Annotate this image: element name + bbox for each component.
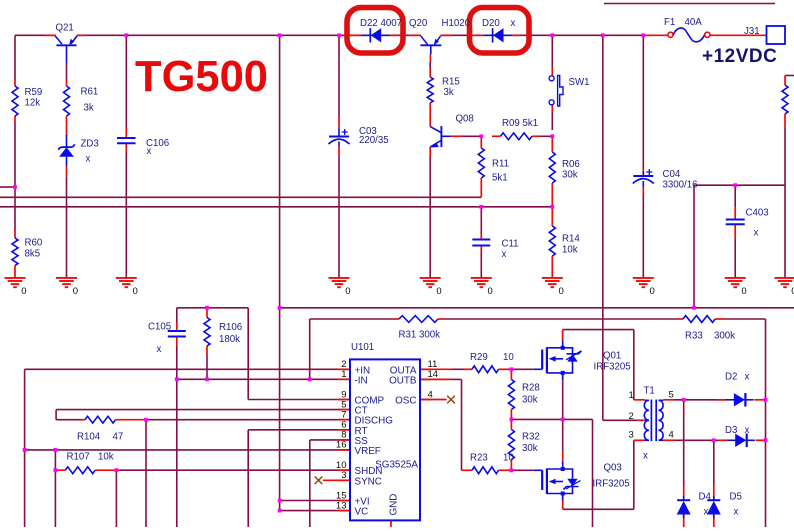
node bus2-C11 junction: [479, 205, 483, 209]
wire pin stub right: [420, 368, 431, 370]
svg-text:2: 2: [629, 411, 634, 422]
wire D22 lead right: [389, 34, 398, 36]
svg-text:R60: R60: [25, 238, 43, 249]
svg-text:x: x: [86, 154, 91, 165]
wire Q01 source lead: [562, 373, 564, 382]
svg-text:0: 0: [650, 286, 655, 297]
wire R106 bottom lead: [206, 346, 208, 356]
wire R28 top lead: [510, 369, 512, 379]
svg-text:C11: C11: [502, 239, 519, 250]
svg-text:IRF3205: IRF3205: [593, 479, 630, 490]
resistor R104: [85, 416, 116, 423]
wire Q03 drain lead: [562, 451, 564, 464]
svg-text:4: 4: [669, 430, 674, 441]
resistor R31: [399, 316, 438, 323]
svg-text:SW1: SW1: [569, 77, 590, 88]
wire Q03 source horizontal: [563, 508, 634, 510]
wire right column lower: [784, 126, 786, 277]
svg-text:GND: GND: [389, 494, 400, 516]
wire R106 top lead: [206, 308, 208, 318]
resistor R61: [64, 86, 70, 116]
connector J3: [767, 26, 786, 44]
wire C105 bottom lead: [176, 337, 178, 347]
node +VI junction: [278, 499, 282, 503]
ground R14: [542, 278, 563, 287]
node C403 feed junction: [733, 183, 737, 187]
ground R60: [5, 278, 26, 287]
wire pin stub right: [420, 378, 431, 380]
wire R23 left lead: [462, 469, 473, 471]
svg-text:47: 47: [113, 432, 124, 443]
wire to Q03 gate: [511, 469, 533, 471]
wire top rail seg1: [15, 34, 56, 36]
svg-text:R29: R29: [470, 352, 488, 363]
svg-text:C403: C403: [746, 208, 769, 219]
wire R104 right lead: [116, 419, 146, 421]
svg-text:D5: D5: [730, 492, 742, 503]
wire COMP riser: [247, 308, 249, 400]
wire feedback line middle: [444, 318, 679, 320]
no-connect X on SYNC pin 3: [315, 477, 323, 485]
ground Q08: [420, 278, 441, 287]
node R107 left junction: [54, 468, 58, 472]
svg-text:x: x: [147, 146, 152, 157]
wire R59 top lead: [14, 80, 16, 86]
diode D2: [726, 393, 754, 407]
svg-text:0: 0: [345, 286, 350, 297]
svg-text:x: x: [643, 451, 648, 462]
wire: [491, 135, 494, 137]
svg-text:F1: F1: [664, 17, 675, 28]
zener diode ZD3: [58, 135, 74, 166]
svg-text:J31: J31: [744, 26, 760, 37]
wire R06 bottom lead: [551, 183, 553, 207]
wire T1 pin4 lead: [663, 439, 674, 441]
wire C403 top lead: [734, 185, 736, 208]
svg-text:OUTB: OUTB: [389, 375, 417, 386]
svg-text:R31 300k: R31 300k: [399, 330, 441, 341]
wire pin stub: [338, 409, 350, 411]
resistor R60: [12, 238, 18, 266]
svg-text:VREF: VREF: [355, 446, 381, 457]
svg-text:H1020: H1020: [442, 18, 471, 29]
capacitor C403: [726, 220, 745, 225]
diode D3: [727, 434, 755, 448]
node -IN R106 junction: [205, 377, 209, 381]
wire C03 bottom lead: [338, 146, 340, 156]
ground C04: [633, 278, 654, 287]
wire R09 left lead: [493, 135, 501, 137]
resistor R32: [508, 430, 514, 460]
wire Q21 collector lead: [45, 34, 56, 36]
svg-text:10k: 10k: [562, 245, 578, 256]
ground C11: [471, 278, 492, 287]
wire VREF branch drop: [54, 450, 56, 527]
svg-text:14: 14: [428, 369, 439, 380]
wire C03 stub2: [338, 142, 340, 147]
wire C106 bottom lead: [125, 143, 127, 152]
wire OUTA segment: [452, 368, 464, 370]
wire C11 to ground: [480, 252, 482, 278]
wire Q08 base segment: [462, 135, 481, 137]
wire T1 pin5 lead: [663, 399, 674, 401]
wire C04 bottom lead: [642, 187, 644, 195]
wire gate-drive drop column: [592, 419, 594, 527]
svg-text:R32: R32: [522, 432, 540, 443]
wire Q03 source lead: [562, 497, 564, 509]
node rail junction: [278, 33, 282, 37]
wire right resistor bottom lead: [784, 114, 786, 126]
wire pin2 +IN: [25, 368, 349, 370]
wire R14 bottom lead: [551, 256, 553, 278]
resistor R106: [204, 318, 210, 347]
wire top rail seg2: [77, 34, 421, 36]
resistor R15: [427, 77, 433, 103]
wire feedback line right: [725, 318, 766, 320]
svg-text:R59: R59: [25, 87, 43, 98]
wire top rail seg3: [440, 34, 643, 36]
wire C105 top lead: [176, 322, 178, 331]
diode D22: [362, 28, 390, 42]
wire Q20 lead right: [440, 34, 452, 36]
svg-text:IRF3205: IRF3205: [594, 362, 631, 373]
wire D3 anode lead: [719, 439, 728, 441]
svg-text:D3: D3: [725, 425, 737, 436]
resistor R06: [549, 152, 555, 183]
wire R15 to Q08 collector: [429, 103, 431, 127]
svg-text:3: 3: [629, 430, 634, 441]
wire R29 right lead: [499, 368, 512, 370]
svg-text:D2: D2: [725, 372, 737, 383]
switch SW1: [549, 76, 563, 107]
wire SS drop: [309, 440, 311, 527]
wire R59 bottom lead: [14, 116, 16, 122]
svg-text:300k: 300k: [714, 331, 735, 342]
no-connect X on OSC pin 4: [447, 396, 455, 404]
svg-text:Q03: Q03: [604, 463, 622, 474]
capacitor C105: [168, 331, 186, 337]
svg-text:R09 5k1: R09 5k1: [502, 118, 538, 129]
wire C106 to ground: [125, 152, 127, 278]
svg-text:R33: R33: [685, 331, 703, 342]
transistor Q01 IRF3205: [534, 341, 582, 380]
svg-text:R23: R23: [470, 453, 488, 464]
wire T1 pin2 horizontal: [603, 419, 637, 421]
wire rail to C03: [338, 35, 340, 116]
wire D2 cathode lead: [754, 399, 765, 401]
svg-text:3k: 3k: [84, 103, 94, 114]
resistor R33: [683, 316, 715, 323]
node -IN feedback junction: [308, 377, 312, 381]
wire Q21 base to R61: [66, 63, 68, 80]
svg-text:x: x: [511, 18, 516, 29]
svg-text:x: x: [704, 507, 709, 518]
wire C03 to ground: [338, 156, 340, 277]
svg-text:5: 5: [669, 390, 674, 401]
wire D5 bottom lead: [713, 515, 715, 528]
svg-text:x: x: [745, 372, 750, 383]
svg-text:x: x: [502, 249, 507, 260]
wire pin5 CT: [56, 409, 349, 411]
diode D20: [484, 28, 512, 42]
svg-text:0: 0: [73, 286, 78, 297]
resistor right edge: [782, 85, 788, 114]
node R59-R60 junction: [13, 185, 17, 189]
node R104-DISCHG junction: [144, 418, 148, 422]
wire C106 top lead: [125, 127, 127, 138]
wire node A horizontal: [280, 307, 794, 309]
diode D4: [677, 496, 690, 518]
wire C03 stub: [338, 128, 340, 137]
wire pin3 SYNC stub: [323, 479, 349, 481]
svg-text:13: 13: [336, 500, 347, 511]
svg-text:0: 0: [741, 286, 746, 297]
svg-text:10: 10: [503, 453, 514, 464]
wire C105 top: [176, 308, 178, 322]
svg-text:R15: R15: [442, 77, 460, 88]
wire R09 right lead: [532, 135, 540, 137]
node T1 pin5-D4 junction: [682, 398, 686, 402]
wire Q01 drain lead: [562, 330, 564, 341]
svg-text:30k: 30k: [522, 395, 538, 406]
wire rail to C106: [125, 35, 127, 127]
wire D4 top lead: [683, 486, 685, 499]
wire to Q01 gate: [511, 368, 533, 370]
wire T1 pin1 riser: [633, 330, 635, 400]
wire OUTB corner segment: [451, 378, 462, 380]
node R23-R32-gate junction: [510, 468, 514, 472]
resistor R107: [65, 467, 95, 474]
svg-text:3: 3: [341, 470, 346, 481]
wire C04 stub: [642, 171, 644, 176]
capacitor C106: [117, 138, 136, 143]
svg-text:R104: R104: [77, 432, 101, 443]
node T1 pin4-D5 junction: [712, 438, 716, 442]
wire rail to pin13 column: [279, 35, 281, 510]
wire left column middle: [14, 122, 16, 230]
node R09-R06-SW1 junction: [550, 134, 554, 138]
transistor Q08: [430, 126, 450, 147]
svg-text:R107: R107: [67, 452, 90, 463]
wire right output column: [765, 319, 767, 527]
wire C403 bottom lead: [734, 224, 736, 238]
wire R11 top lead: [480, 136, 482, 148]
svg-text:10: 10: [503, 352, 514, 363]
wire D5 top lead: [713, 486, 715, 499]
wire D4 bottom lead: [683, 515, 685, 528]
svg-text:8k5: 8k5: [25, 249, 41, 260]
wire feedback riser to -IN: [309, 319, 311, 379]
wire pin15 +VI: [280, 500, 349, 502]
wire +IN drop column: [24, 369, 26, 527]
wire C403 feed horizontal: [694, 184, 785, 186]
wire pin stub: [338, 439, 350, 441]
svg-text:SYNC: SYNC: [355, 476, 382, 487]
wire R60 bottom lead: [14, 266, 16, 278]
wire pin stub: [338, 429, 350, 431]
transistor Q21: [55, 36, 77, 63]
wire C04 top lead: [642, 168, 644, 176]
wire C105 bottom column: [176, 346, 178, 527]
wire R15 top lead: [429, 69, 431, 78]
wire left column upper: [14, 35, 16, 80]
node rail-C04-F1 junction: [641, 33, 645, 37]
svg-text:SG3525A: SG3525A: [375, 460, 418, 471]
svg-text:D22 4007: D22 4007: [360, 18, 402, 29]
node bus2-R14 junction: [550, 205, 554, 209]
wire R23 right lead: [499, 469, 512, 471]
node Q01 source junction: [561, 418, 565, 422]
wire R28 bottom lead: [510, 410, 512, 420]
ground C106: [116, 278, 137, 287]
transistor Q20: [420, 36, 441, 54]
transistor Q03 IRF3205: [534, 462, 581, 501]
svg-text:ZD3: ZD3: [81, 139, 99, 150]
svg-text:1: 1: [341, 369, 346, 380]
resistor R29: [472, 366, 499, 373]
wire bus2 to C11: [480, 207, 482, 234]
svg-text:30k: 30k: [562, 170, 578, 181]
svg-text:T1: T1: [644, 386, 655, 397]
wire T1 pin3 lead: [634, 439, 645, 441]
wire R61 top lead: [66, 80, 68, 86]
svg-text:x: x: [745, 425, 750, 436]
wire pin stub: [338, 399, 350, 401]
wire T1 pin5 to D2: [675, 399, 725, 401]
resistor R59: [12, 86, 18, 116]
svg-text:Q21: Q21: [56, 23, 74, 34]
wire pin stub: [338, 479, 350, 481]
wire C03 top lead: [338, 117, 340, 128]
node -IN C105 junction: [175, 377, 179, 381]
node D2 output junction: [764, 398, 768, 402]
wire pin16 VREF: [25, 449, 349, 451]
wire rail to C04: [642, 35, 644, 168]
wire R33 left lead: [678, 318, 683, 320]
wire pin stub right: [420, 399, 431, 401]
wire C403 top lead: [734, 208, 736, 220]
svg-text:5k1: 5k1: [492, 173, 508, 184]
wire R32 bottom lead: [510, 460, 512, 471]
wire pin9 COMP: [248, 399, 349, 401]
red highlight box around D22: [347, 8, 403, 54]
svg-text:0: 0: [436, 286, 441, 297]
wire OUTA lead: [421, 368, 452, 370]
node rail center-tap junction: [601, 33, 605, 37]
svg-text:0: 0: [559, 286, 564, 297]
wire top-right horizontal: [604, 3, 775, 5]
wire R28 node to Q01 source: [511, 418, 592, 420]
wire C403 feed vertical: [693, 185, 695, 308]
svg-text:16: 16: [336, 440, 347, 451]
wire pin stub: [338, 419, 350, 421]
svg-text:Q20: Q20: [409, 18, 428, 29]
wire R33 right lead: [715, 318, 724, 320]
wire C04 to ground: [642, 195, 644, 278]
svg-text:VC: VC: [355, 507, 369, 518]
node VREF left junction: [23, 448, 27, 452]
wire rail to T1 pin2: [602, 35, 604, 420]
wire T1 pin1 lead: [634, 399, 645, 401]
node rail-SW1 junction: [550, 33, 554, 37]
wire R06 top lead: [551, 136, 553, 152]
wire pin7 DISCHG: [146, 419, 349, 421]
wire D4 column: [683, 400, 685, 486]
node lineA junction: [278, 306, 282, 310]
wire left stub to R60 node: [0, 186, 15, 188]
wire R107 right lead: [95, 469, 120, 471]
wire R09 to SW1 node: [540, 135, 552, 137]
wire OSC lead: [421, 399, 447, 401]
svg-text:30k: 30k: [522, 443, 538, 454]
svg-text:x: x: [754, 228, 759, 239]
svg-text:10k: 10k: [98, 452, 114, 463]
wire rail to SW1: [551, 35, 553, 67]
wire R106 bottom: [206, 356, 208, 379]
fuse F1 40A: [668, 28, 710, 42]
wire GND pin lead: [390, 520, 392, 527]
svg-text:Q01: Q01: [603, 351, 621, 362]
wire pin6 RT: [248, 429, 349, 431]
wire C403 to ground: [734, 238, 736, 277]
wire Q01 drain to T1 pin1: [563, 329, 634, 331]
svg-text:R61: R61: [81, 87, 99, 98]
wire R29 left lead: [464, 368, 473, 370]
svg-text:C04: C04: [663, 169, 681, 180]
wire D5 node to D3: [714, 439, 726, 441]
wire OUTB lead: [421, 378, 451, 380]
svg-text:0: 0: [21, 286, 26, 297]
svg-text:3k: 3k: [444, 87, 454, 98]
wire bus line 1: [0, 196, 481, 198]
diode D5: [707, 496, 720, 518]
wire R107 node drop: [115, 470, 117, 527]
ground C403: [725, 278, 746, 287]
svg-text:R11: R11: [492, 159, 509, 170]
wire D2 anode lead: [718, 399, 727, 401]
svg-text:-IN: -IN: [355, 375, 368, 386]
svg-text:R06: R06: [562, 159, 580, 170]
wire Q01 source to Q03 drain: [562, 382, 564, 452]
wire pin10 SHDN: [120, 469, 349, 471]
svg-text:U101: U101: [351, 342, 374, 353]
capacitor C11: [472, 240, 490, 246]
wire pin stub: [338, 368, 350, 370]
wire R32 top lead: [510, 419, 512, 429]
wire SW1 to R06 node: [551, 112, 553, 130]
wire pin stub: [338, 378, 350, 380]
wire D22 anode-side lead: [350, 34, 362, 36]
svg-text:TG500: TG500: [135, 53, 268, 101]
ground ZD3: [56, 278, 77, 287]
op-amp U101 SG3525A body: [350, 359, 420, 520]
wire D20 lead left: [470, 34, 484, 36]
wire SW1 top lead: [551, 67, 553, 76]
wire Q08 base lead: [451, 135, 462, 137]
wire D5 column: [713, 440, 715, 486]
wire T1 pin2 lead: [637, 419, 645, 421]
capacitor C03: [329, 129, 350, 144]
resistor R28: [508, 380, 514, 410]
svg-text:3300/16: 3300/16: [663, 180, 698, 191]
wire pin stub: [338, 500, 350, 502]
svg-text:Q08: Q08: [456, 114, 474, 125]
wire Q20 lead left: [409, 34, 421, 36]
resistor R11: [478, 148, 484, 178]
wire RT drop: [247, 430, 249, 527]
wire T1 pin3 drop: [633, 440, 635, 509]
wire ZD3 bottom lead: [66, 166, 68, 176]
